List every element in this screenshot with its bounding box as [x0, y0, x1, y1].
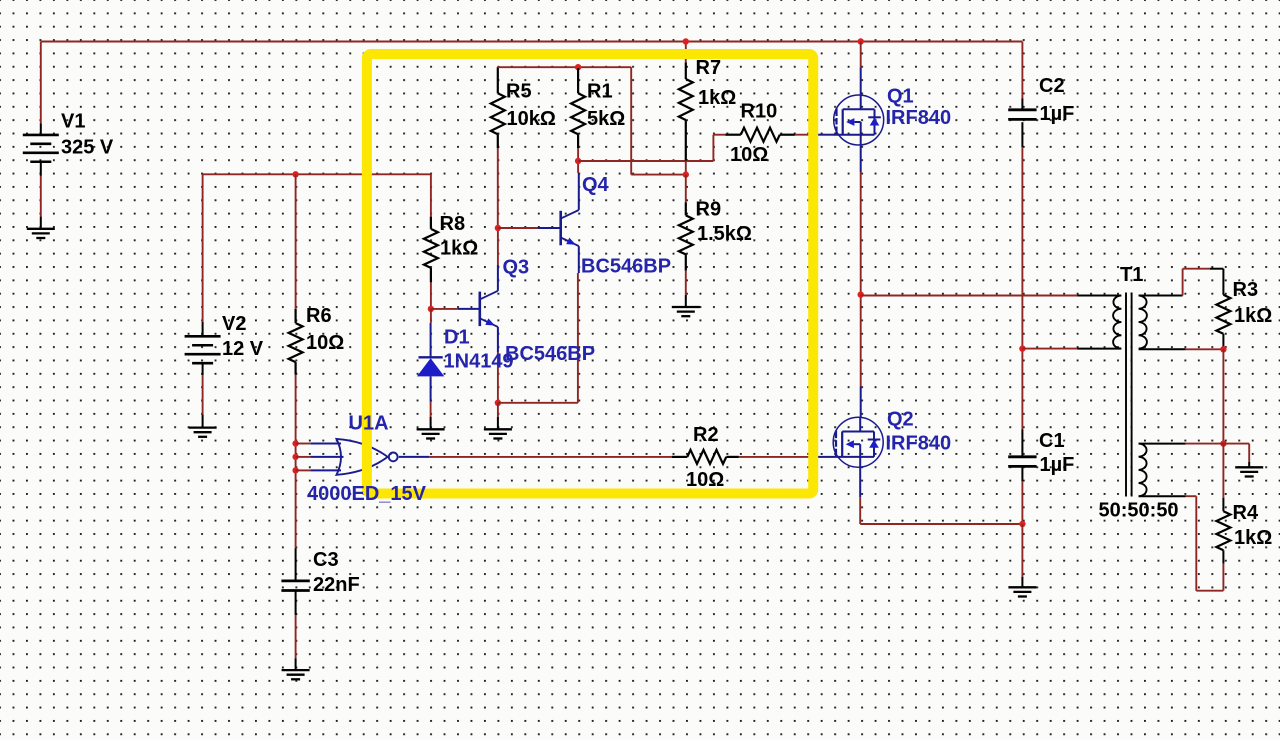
ground V1: [27, 228, 55, 230]
node R1 bottom: [575, 158, 581, 164]
transistor Q1 IRF840: [818, 134, 834, 136]
wire primary bottom: [1022, 348, 1077, 350]
svg-text:325 V: 325 V: [61, 137, 114, 159]
resistor R7: [685, 42, 687, 63]
svg-text:C2: C2: [1039, 75, 1065, 97]
svg-text:12 V: 12 V: [222, 338, 264, 360]
transistor Q3 BC546BP: [478, 292, 481, 327]
svg-text:R7: R7: [696, 57, 722, 79]
wire sec1 top to R3: [1139, 295, 1183, 297]
wire V2 top: [202, 174, 204, 322]
svg-text:V1: V1: [61, 111, 85, 133]
svg-text:1kΩ: 1kΩ: [440, 238, 478, 260]
svg-text:10kΩ: 10kΩ: [507, 108, 556, 130]
svg-text:D1: D1: [444, 327, 470, 349]
wire Q2 source: [859, 467, 861, 497]
wire D1 to ground: [430, 402, 432, 418]
battery V1: [40, 123, 42, 135]
node R7/R9: [683, 171, 689, 177]
node rail/R7: [683, 38, 689, 44]
svg-text:IRF840: IRF840: [886, 433, 952, 455]
svg-text:10Ω: 10Ω: [686, 469, 724, 491]
wire R4 bottom to sec2 bottom: [1222, 564, 1224, 591]
svg-text:1kΩ: 1kΩ: [1234, 305, 1272, 327]
resistor R2: [672, 456, 688, 458]
gate U1A 4000ED_15V: [337, 439, 388, 475]
U1A input stubs: [296, 443, 311, 445]
diode D1: [430, 323, 432, 358]
svg-text:1µF: 1µF: [1040, 103, 1075, 125]
svg-text:Q4: Q4: [582, 174, 610, 196]
wire Q4 emitter down: [578, 246, 580, 273]
svg-text:Q3: Q3: [503, 257, 530, 279]
wire V2 to R8: [203, 173, 431, 175]
svg-text:5kΩ: 5kΩ: [587, 108, 625, 130]
svg-text:R2: R2: [693, 424, 719, 446]
wire C3 to ground: [295, 615, 297, 658]
resistor R10: [725, 134, 741, 136]
node U1A input 2: [292, 454, 298, 460]
wire R8 node to Q3 base: [431, 308, 458, 310]
wire Q3 emitter down: [497, 327, 499, 352]
svg-text:BC546BP: BC546BP: [505, 343, 595, 365]
capacitor C2: [1021, 42, 1023, 99]
svg-text:1.5kΩ: 1.5kΩ: [697, 223, 752, 245]
wire R9 to ground: [685, 271, 687, 295]
svg-text:50:50:50: 50:50:50: [1099, 500, 1179, 522]
svg-text:1µF: 1µF: [1040, 454, 1075, 476]
node R1 top: [575, 64, 581, 70]
svg-text:V2: V2: [222, 313, 246, 335]
svg-text:Q1: Q1: [887, 86, 914, 108]
node R6 top: [292, 171, 298, 177]
svg-text:U1A: U1A: [349, 413, 389, 435]
svg-text:4000ED_15V: 4000ED_15V: [307, 483, 427, 505]
wire R6 to U1A inputs and C3: [295, 375, 297, 549]
svg-text:C3: C3: [313, 549, 339, 571]
ground C1: [1008, 586, 1036, 588]
ground Q3/Q4: [484, 428, 512, 430]
battery V2: [202, 322, 204, 336]
wire R2 to Q2 gate: [739, 456, 818, 458]
resistor R6: [295, 174, 297, 309]
wire emitters: [498, 402, 578, 404]
svg-text:1N4149: 1N4149: [444, 351, 514, 373]
resistor R4: [1222, 444, 1224, 498]
wire V1 top: [40, 42, 42, 124]
node Q1/Q2 midpoint: [858, 291, 864, 297]
node U1A input 1: [292, 440, 298, 446]
wire sec2 top lead: [1139, 443, 1186, 445]
wire U1A output: [399, 456, 429, 458]
svg-text:R9: R9: [696, 199, 722, 221]
wire R1 bottom to R10: [578, 160, 713, 162]
capacitor C3: [295, 548, 297, 581]
ground D1: [417, 428, 445, 430]
node C1 bottom/Q2 source: [1019, 521, 1025, 527]
wire mid to T1 primary top: [861, 295, 1077, 297]
wire C1 node to ground: [1021, 524, 1023, 577]
node R8/D1/Q3 base: [428, 306, 434, 312]
wire C2 to C1: [1021, 147, 1023, 429]
node R5/Q3/Q4: [495, 225, 501, 231]
node R3/sec1: [1220, 346, 1226, 352]
svg-text:R10: R10: [741, 101, 778, 123]
transistor Q2 IRF840: [818, 456, 833, 458]
svg-text:BC546BP: BC546BP: [581, 256, 671, 278]
wire V1 to ground: [40, 176, 42, 217]
ground T1 right: [1235, 466, 1263, 468]
wire node to D1: [430, 309, 432, 323]
svg-text:R3: R3: [1233, 279, 1259, 301]
T1 secondary winding 1: [1139, 296, 1147, 349]
T1 primary winding: [1113, 296, 1121, 349]
wire top rail +325V: [41, 41, 1023, 43]
wire Q1 source: [860, 145, 862, 172]
U1A input pins: [310, 443, 341, 445]
transformer T1 core: [1125, 293, 1127, 497]
svg-text:T1: T1: [1120, 264, 1143, 286]
wire U1A out to R2: [429, 456, 672, 458]
wire sec1 bottom: [1139, 348, 1186, 350]
wire Q1 drain: [858, 38, 864, 44]
svg-text:1kΩ: 1kΩ: [1234, 527, 1272, 549]
transistor Q4 BC546BP: [559, 211, 562, 246]
node U1A input 3: [292, 467, 298, 473]
resistor R9: [685, 175, 687, 203]
svg-text:C1: C1: [1039, 430, 1065, 452]
wire R10 to Q1 gate: [795, 134, 818, 136]
wire to R7 bottom node: [630, 67, 632, 174]
wire Q4 collector to R1: [578, 173, 580, 210]
resistor R1: [577, 68, 579, 93]
svg-text:R1: R1: [587, 81, 613, 103]
node Q3/Q4 emitters: [495, 400, 501, 406]
svg-text:10Ω: 10Ω: [306, 332, 344, 354]
svg-text:IRF840: IRF840: [886, 107, 952, 129]
T1 secondary winding 2: [1139, 444, 1147, 497]
wire V2 to ground: [202, 375, 204, 414]
resistor R8: [430, 174, 432, 216]
ground V2: [189, 426, 217, 428]
resistor R3: [1222, 269, 1224, 295]
svg-text:R6: R6: [306, 305, 332, 327]
wire Q2 drain: [860, 295, 862, 387]
ground C3: [282, 669, 310, 671]
wire sec1 node to sec2 node: [1222, 349, 1224, 443]
svg-text:R4: R4: [1233, 502, 1259, 524]
node primary bottom: [1019, 345, 1025, 351]
wire to ground: [497, 403, 499, 417]
svg-text:1kΩ: 1kΩ: [698, 87, 736, 109]
wire node to ground right: [1223, 443, 1249, 445]
wire node to Q4 base: [498, 227, 538, 229]
capacitor C1: [1021, 429, 1023, 457]
ground R9: [672, 306, 700, 308]
svg-text:22nF: 22nF: [313, 574, 360, 596]
svg-text:10Ω: 10Ω: [730, 144, 768, 166]
wire R5-R1 tops: [498, 66, 631, 68]
highlight box: [367, 54, 813, 494]
svg-text:R5: R5: [506, 81, 532, 103]
svg-text:Q2: Q2: [887, 409, 914, 431]
wire Q3 collector to node: [497, 265, 499, 291]
node sec2 top: [1220, 440, 1226, 446]
resistor R5: [497, 67, 499, 93]
svg-text:R8: R8: [440, 213, 466, 235]
